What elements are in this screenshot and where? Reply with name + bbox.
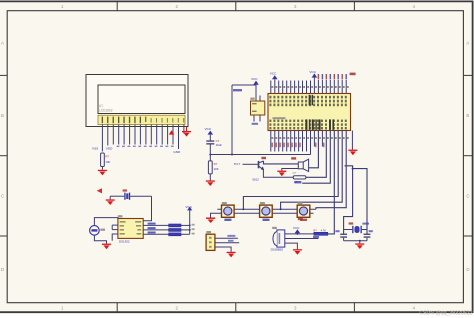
wire button1 net to MCU pin k17 <box>243 131 338 210</box>
wire DS18B20 DQ pin <box>285 238 319 240</box>
power VCC (reset circuit) <box>205 127 214 140</box>
wire emitter down <box>263 170 293 178</box>
net label specks on U4 lines <box>148 223 156 234</box>
wire J1 pin2 <box>215 242 239 244</box>
designator S1 speck <box>222 202 227 204</box>
microcontroller U1 body <box>268 94 351 131</box>
wire DS18B20 VCC pin <box>285 233 314 235</box>
wire speaker right to MCU pin k12 <box>309 131 319 168</box>
svg-text:A: A <box>1 41 4 46</box>
RTC U4 DS1302 body <box>118 219 143 239</box>
value 12MHz speck <box>362 223 369 225</box>
svg-text:A: A <box>466 41 469 46</box>
net label speck J1 pin1 <box>227 235 235 237</box>
wire battery bottom to ground <box>94 235 106 243</box>
border row letters <box>1 41 470 273</box>
svg-text:4.7K: 4.7K <box>321 228 327 232</box>
wire vertical from EA node down to RST rail <box>231 85 233 155</box>
wire collector to speaker <box>264 161 299 164</box>
junction (bottom rail / gnd) <box>359 240 361 242</box>
wire button upper rail <box>217 208 316 210</box>
border ticks bottom <box>117 303 354 313</box>
svg-text:R?: R? <box>214 162 218 166</box>
junction (VCC rail) <box>189 224 191 226</box>
power VCC above small box U2 <box>251 77 259 101</box>
resistor R7 (filled) <box>169 233 181 236</box>
border ticks top <box>117 1 354 10</box>
resistor R5 (filled) <box>169 224 181 227</box>
svg-text:C: C <box>466 193 469 198</box>
wire pull-up to MCU pin k16 <box>328 131 335 234</box>
MCU designator text <box>273 117 286 119</box>
svg-text:10uF: 10uF <box>216 143 223 147</box>
svg-text:9012: 9012 <box>252 178 259 182</box>
svg-text:DS1302: DS1302 <box>119 240 130 244</box>
power port red arrow near LCD pin13 <box>169 130 174 134</box>
svg-text:10K: 10K <box>105 160 110 164</box>
push button K1 <box>222 205 235 217</box>
power VCC (DS1302 pull-ups) <box>185 205 192 210</box>
ground (connector J1) <box>227 252 236 258</box>
push button K2 <box>260 205 273 217</box>
LCD pins 1-16 stubs <box>102 125 183 152</box>
LCD pin header yellow bar <box>98 115 185 124</box>
wire Y2 right into U4 <box>143 196 151 221</box>
wire XTAL2 branch <box>353 169 367 234</box>
svg-text:CSDN @qq_39320522: CSDN @qq_39320522 <box>419 311 472 317</box>
ground (MCU GND pin) <box>348 131 357 156</box>
wire speaker bottom to ground <box>282 169 299 171</box>
net label K2 <box>263 219 270 221</box>
designator Q1 speck <box>261 157 266 159</box>
svg-text:P3.7: P3.7 <box>234 162 241 166</box>
wire DS18B20 GND pin to ground <box>285 243 298 249</box>
ground (crystal Y2 left) <box>106 196 115 205</box>
wire J1 pin3 to ground <box>215 247 231 252</box>
resistor R6 (filled) <box>169 229 181 232</box>
designator BT1 speck <box>100 229 105 231</box>
svg-text:GND: GND <box>173 150 181 154</box>
power VCC above MCU pin row (middle) <box>309 70 317 80</box>
resistor R3 (speaker emitter) <box>293 176 306 179</box>
LCD designator text <box>99 104 113 113</box>
wire base of Q1 <box>243 163 258 165</box>
MCU bottom-left net label specks (red) <box>272 143 325 148</box>
battery BT1 <box>90 226 100 236</box>
svg-text:LCD1602: LCD1602 <box>99 109 113 113</box>
ground (DS18B20) <box>293 249 302 255</box>
svg-text:VSS: VSS <box>92 146 98 150</box>
wire net stub with label to MCU pin k15 <box>302 131 330 184</box>
svg-text:R?: R? <box>293 171 297 175</box>
designator S2 speck <box>260 202 265 204</box>
svg-text:VCC: VCC <box>270 72 277 76</box>
wire MCU RST pin drop <box>310 131 312 155</box>
svg-text:VCC: VCC <box>309 70 316 74</box>
MCU bottom-left pin stubs P1 <box>271 131 323 152</box>
junction (rail/button2 net) <box>280 208 282 210</box>
ground (battery / U4) <box>102 244 111 250</box>
ground (button rail left) <box>206 218 215 224</box>
wire emitter resistor to MCU pin k14 <box>306 131 326 178</box>
net label speck above DS18B20 <box>298 218 303 220</box>
ground (reset resistor) <box>206 180 215 186</box>
wire EA/VP node: horizontal to small box <box>232 84 256 86</box>
component U2 small yellow box <box>251 101 265 115</box>
designator U4 speck <box>118 215 123 217</box>
capacitor C2 (left) <box>340 234 347 241</box>
resistor R4 pull-up (filled) <box>314 232 328 235</box>
capacitor C1 (reset) <box>206 139 222 154</box>
wire battery top to U4 VCC1 <box>94 218 118 226</box>
border ticks right <box>463 75 472 236</box>
net label speck right of last top pin <box>350 73 356 76</box>
wire U4 SCLK line <box>143 229 169 231</box>
svg-text:C: C <box>1 193 4 198</box>
LCD pin name labels (red) <box>102 117 185 124</box>
svg-text:B: B <box>1 113 4 118</box>
small box U2 pin stubs <box>254 96 260 122</box>
svg-text:VDD: VDD <box>106 146 113 150</box>
resistor R1 (LCD contrast) <box>101 153 105 167</box>
wire button lower rail to ground <box>211 213 314 217</box>
value speck C2 <box>335 230 339 232</box>
MCU bold pin-name (top) <box>309 95 311 106</box>
junction (RST / EA vertical) <box>231 154 233 156</box>
wire XTAL1 from MCU down right side <box>344 166 353 234</box>
MCU U1 top pin stubs <box>271 79 346 93</box>
connector J1 body <box>206 234 215 250</box>
svg-text:U?: U? <box>99 104 103 108</box>
wire RST rail <box>210 154 310 156</box>
resistor R2 (reset pulldown) <box>208 161 212 174</box>
net label K3 speck <box>300 219 307 221</box>
svg-text:DS18B20: DS18B20 <box>271 247 284 251</box>
crystal Y2 (32.768kHz) <box>110 193 151 200</box>
designator S3 speck <box>298 202 303 204</box>
crystal Y1 (MCU) <box>344 226 367 233</box>
svg-text:R?: R? <box>313 228 317 232</box>
svg-text:VCC: VCC <box>293 226 300 230</box>
net label specks above MCU right top pins <box>318 74 347 79</box>
junction (xtal wires) <box>352 168 354 170</box>
net label speck DQ <box>313 236 319 238</box>
junction (RST / cap node) <box>209 154 211 156</box>
svg-text:D: D <box>1 267 4 272</box>
svg-text:VCC: VCC <box>251 77 258 81</box>
ground (LCD frame, right) <box>182 127 191 137</box>
svg-text:R?: R? <box>105 155 109 159</box>
wire U4 GND pin <box>112 234 118 241</box>
ground (crystal) <box>355 241 364 249</box>
border column numbers <box>61 4 416 311</box>
MCU bottom pin number specks <box>272 137 349 139</box>
net label speck J1 pin2 <box>228 240 234 242</box>
designator LS speck <box>291 157 296 159</box>
wire button2 net to MCU pin k18 <box>281 131 343 210</box>
net label speck on k15 wire <box>294 181 301 183</box>
MCU bold pin-names (bottom) <box>305 119 307 129</box>
ground (LCD contrast resistor) <box>98 170 107 176</box>
sensor U3 DS18B20 body <box>273 230 285 247</box>
transistor Q1 <box>259 161 264 170</box>
wire J1 pin1 <box>215 237 238 239</box>
svg-text:10K: 10K <box>214 167 219 171</box>
wire crystal bottom rail <box>344 240 367 242</box>
junction (rail/button1 net) <box>242 208 244 210</box>
svg-text:VCC: VCC <box>205 127 212 131</box>
designator Y2 speck <box>123 189 127 191</box>
value speck C3 <box>369 230 373 232</box>
LCD module inner screen rectangle <box>98 85 185 114</box>
net label K1 <box>224 219 231 221</box>
LCD data net label specks <box>117 146 174 147</box>
border ticks left <box>0 75 7 236</box>
svg-text:D: D <box>466 267 469 272</box>
push button K3 <box>297 205 310 217</box>
U2 bottom net label specks <box>252 123 259 125</box>
wire U4 X1 X2 stubs <box>112 225 118 230</box>
designator Y1 speck <box>349 222 354 224</box>
net label speck at EA node <box>233 89 242 91</box>
MCU top pin number specks <box>272 86 349 88</box>
power VCC (DS18B20) <box>293 226 300 235</box>
wire resistors to VCC rail <box>181 210 190 234</box>
wire U4 RST line <box>143 224 169 226</box>
wire U4 IO line <box>143 233 169 235</box>
designator U2 speck <box>250 98 254 100</box>
speaker LS1 <box>298 159 308 171</box>
designator J1 speck <box>206 231 211 233</box>
pin number specks right of rail <box>192 224 195 235</box>
LCD module LCD1 outer body <box>86 75 188 127</box>
svg-text:B: B <box>466 113 469 118</box>
wire button3 net to MCU pin k19 <box>316 131 346 210</box>
ground (speaker) <box>277 171 286 177</box>
red power speck left of Y2 <box>97 188 102 193</box>
power VCC above MCU pin row (left) <box>270 72 278 80</box>
designator U3 speck <box>272 227 277 229</box>
capacitor C3 (right) <box>364 234 371 241</box>
